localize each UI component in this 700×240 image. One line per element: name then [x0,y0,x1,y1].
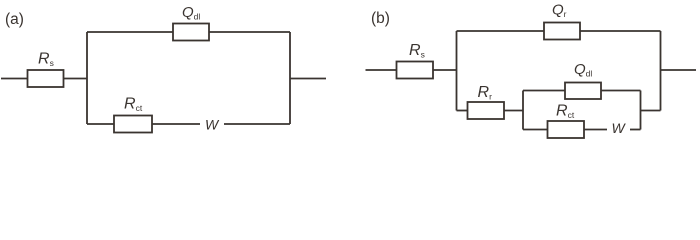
wire: outer top branch right (b) [580,30,661,32]
CPE Qdl (b) [565,83,601,100]
wire: input lead (a) [1,78,28,80]
wire: outer top branch left (b) [457,30,545,32]
wire: inner top branch right (b) [601,90,641,92]
resistor Rs (a) [28,70,64,87]
resistor Rct (a) [114,116,152,133]
svg-text:(b): (b) [371,10,390,27]
wire: Warburg to inner right junction (b) [630,129,641,131]
resistor Rs (b) [397,62,434,79]
wire: inner top branch left (b) [523,90,565,92]
wire: output lead (a) [290,78,326,80]
wire: left vertical junction (a) [86,32,88,124]
wire: Rs to outer left junction (b) [433,69,457,71]
svg-text:W: W [612,120,627,136]
wire: right vertical junction (a) [289,32,291,124]
svg-text:(a): (a) [5,11,24,28]
wire: top branch left (a) [87,31,173,33]
wire: outer bottom branch left (b) [457,110,468,112]
wire: inner bottom branch left (b) [523,129,548,131]
wire: top branch right (a) [209,31,290,33]
wire: output lead (b) [661,69,697,71]
wire: Rct to Warburg (b) [584,129,607,131]
wire: outer right vertical junction (b) [660,31,662,111]
wire: inner right vertical junction (b) [640,91,642,130]
wire: outer left vertical junction (b) [456,31,458,111]
wire: inner left vertical junction (b) [522,91,524,130]
wire: inner to outer right jog (b) [641,110,661,112]
svg-text:W: W [205,116,220,132]
CPE Qdl (a) [173,24,209,41]
wire: Warburg to right junction (a) [224,123,290,125]
wire: Rs to left junction (a) [64,78,88,80]
resistor Rr (b) [468,102,505,119]
wire: bottom branch left (a) [87,123,114,125]
CPE Qr (b) [544,23,580,40]
resistor Rct (b) [548,121,585,138]
wire: Rr to inner left junction (b) [504,110,523,112]
wire: input lead (b) [366,69,397,71]
wire: Rct to Warburg (a) [152,123,200,125]
